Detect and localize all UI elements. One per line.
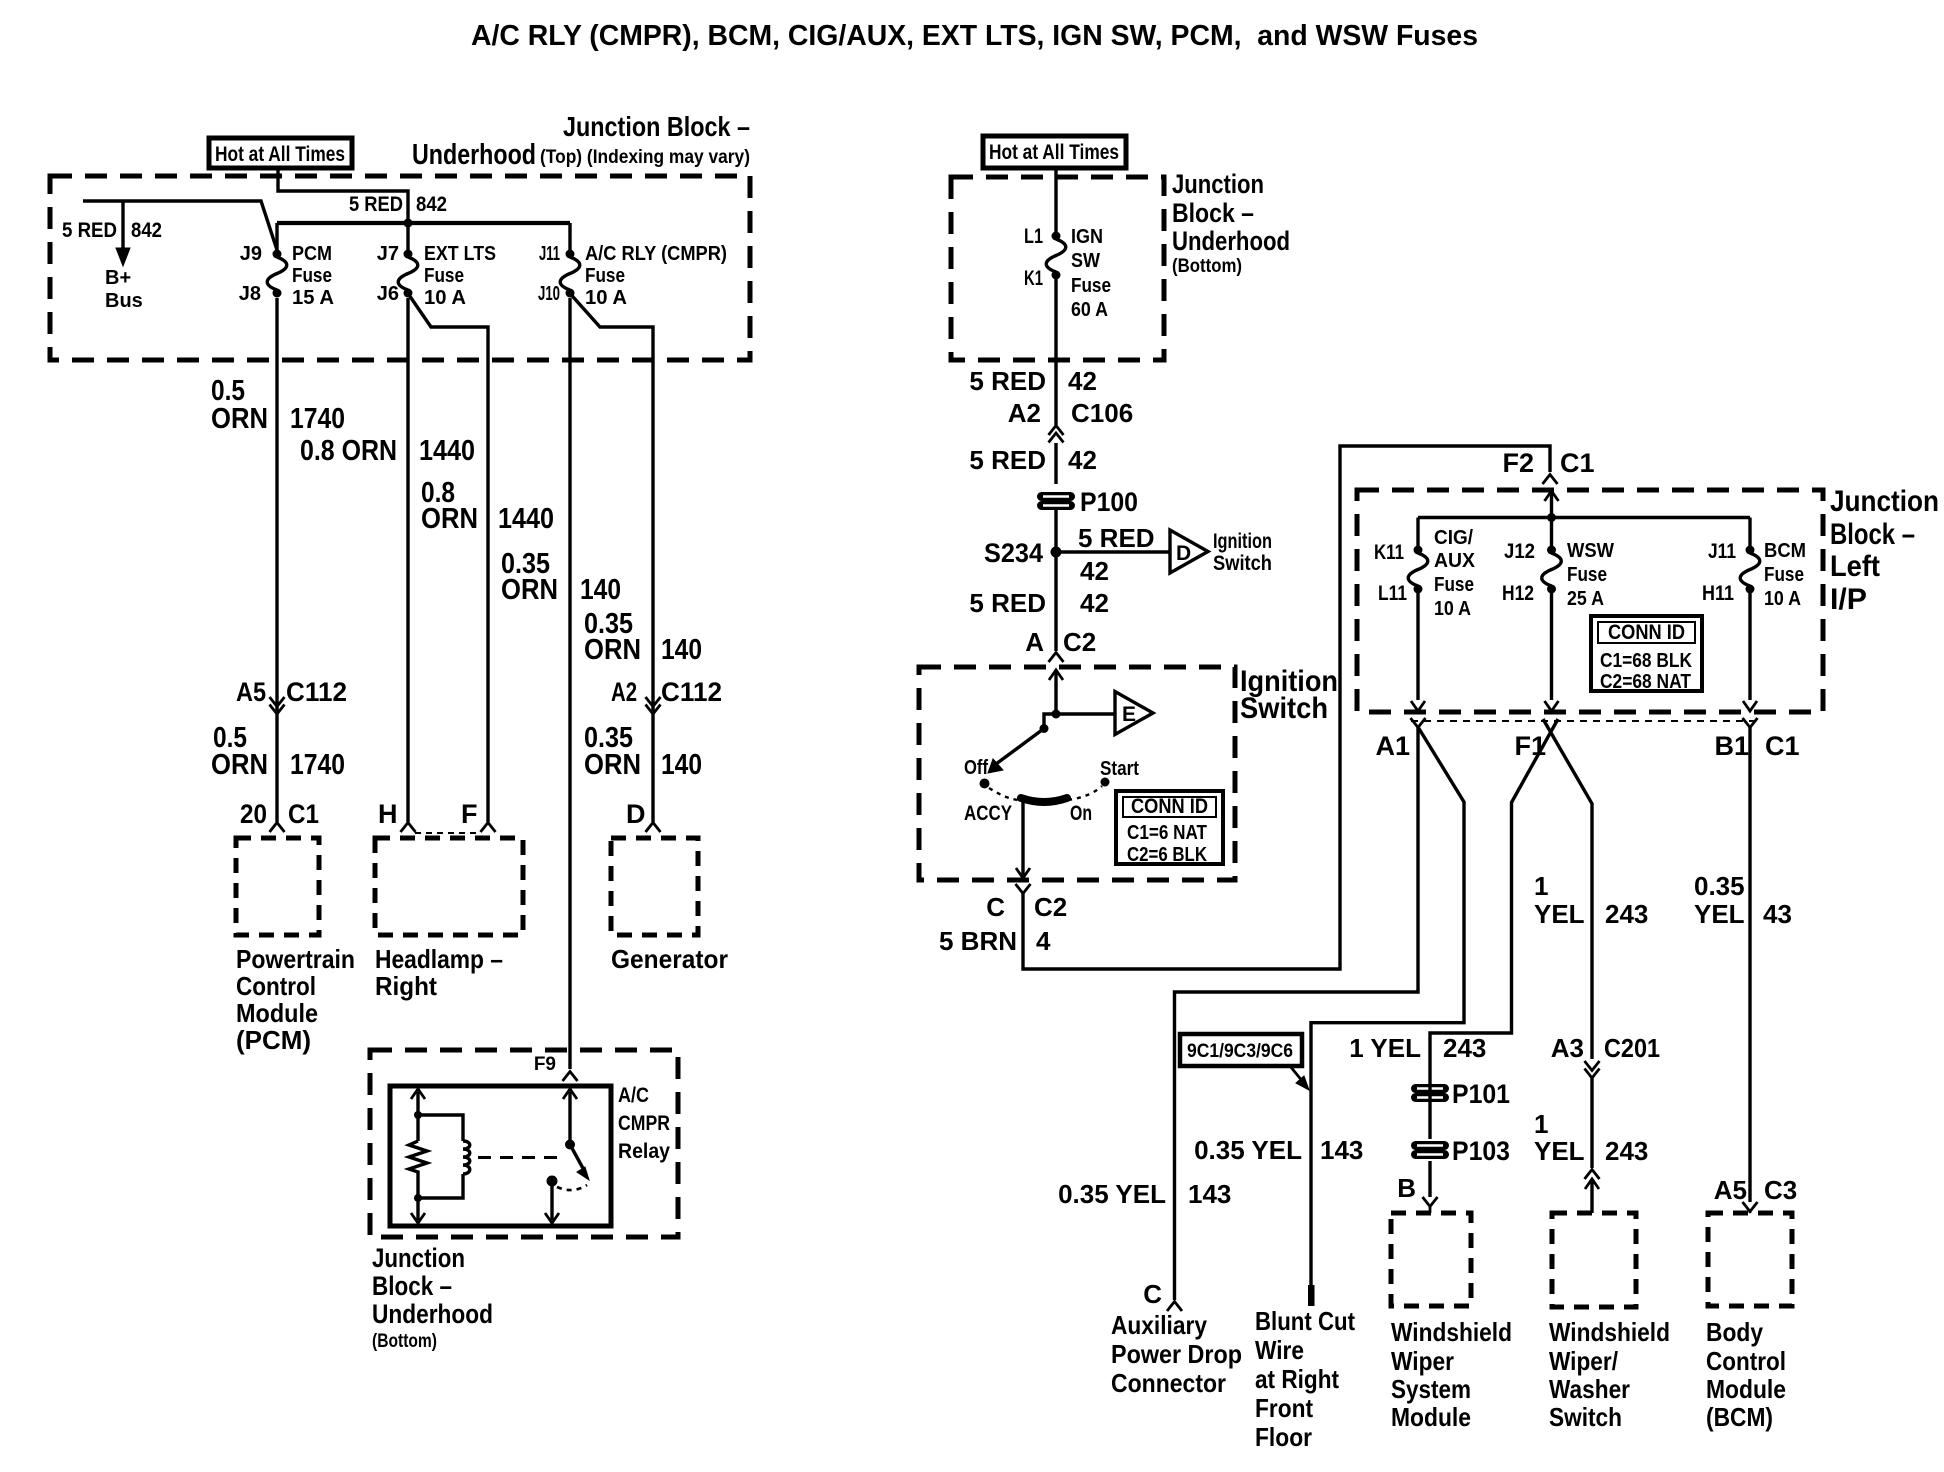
label headlamp right (375, 944, 503, 1001)
label 5 RED 42 a (969, 366, 1097, 396)
svg-text:(PCM): (PCM) (236, 1025, 311, 1055)
svg-text:Blunt Cut: Blunt Cut (1255, 1306, 1355, 1336)
svg-text:10 A: 10 A (585, 287, 627, 309)
label 5 RED 42 branch (1078, 523, 1155, 586)
svg-text:10 A: 10 A (424, 287, 466, 309)
fuse A/C RLY J11-J10 (560, 250, 580, 298)
svg-text:(Bottom): (Bottom) (372, 1331, 437, 1352)
dashed link H-F (415, 832, 481, 834)
svg-text:C2=68 NAT: C2=68 NAT (1600, 671, 1691, 693)
fuse PCM J9-J8 (267, 250, 287, 298)
svg-text:42: 42 (1080, 588, 1109, 618)
svg-text:On: On (1070, 802, 1092, 825)
svg-text:Floor: Floor (1255, 1422, 1312, 1452)
powertrain control module box (236, 838, 319, 935)
label 9C1/9C3/9C6 (1180, 1034, 1309, 1090)
inline connector P100 (1042, 497, 1071, 506)
svg-text:1: 1 (1534, 1109, 1548, 1139)
svg-text:H: H (378, 799, 398, 829)
svg-text:J9: J9 (240, 243, 262, 265)
svg-text:5 RED: 5 RED (62, 219, 117, 242)
connector A2 C106 (1008, 398, 1133, 428)
svg-text:4: 4 (1036, 926, 1051, 956)
relay coil (418, 1115, 470, 1198)
svg-text:A5: A5 (236, 677, 266, 707)
node S at 842 junction (404, 219, 413, 228)
wire P103 to B (1428, 1161, 1431, 1197)
svg-text:9C1/9C3/9C6: 9C1/9C3/9C6 (1187, 1041, 1293, 1062)
svg-text:Power Drop: Power Drop (1111, 1339, 1242, 1369)
svg-text:243: 243 (1605, 1136, 1648, 1166)
wire S234 down to A C2 (1054, 552, 1057, 651)
svg-text:E: E (1122, 703, 1136, 726)
label ignition switch small (1213, 530, 1272, 575)
bus left I/P (1418, 516, 1750, 519)
wire to E triangle (1056, 712, 1115, 715)
svg-text:J12: J12 (1504, 540, 1535, 563)
wire bus 842 (277, 221, 570, 225)
svg-text:Connector: Connector (1111, 1368, 1226, 1398)
svg-text:140: 140 (661, 634, 702, 666)
svg-text:ORN: ORN (211, 403, 268, 435)
connector F2 C1 (1502, 448, 1594, 478)
a/c cmpr relay box (390, 1086, 611, 1226)
svg-text:Ignition: Ignition (1213, 530, 1272, 553)
svg-text:1: 1 (1534, 871, 1548, 901)
label 5 BRN 4 (939, 926, 1051, 956)
connector A2 C112 (611, 677, 722, 707)
wire P100 to S234 (1054, 510, 1057, 552)
svg-text:SW: SW (1071, 250, 1100, 272)
svg-text:Block –: Block – (1830, 518, 1915, 551)
svg-text:Powertrain: Powertrain (236, 944, 355, 974)
svg-text:A: A (1025, 627, 1044, 657)
junction block left I/P header (1830, 485, 1939, 616)
svg-text:1740: 1740 (290, 749, 345, 781)
wire C106 to P100 (1054, 443, 1057, 484)
wire hot box to L1 (1054, 168, 1057, 232)
svg-text:A5: A5 (1714, 1175, 1747, 1205)
wire C C2 down right up to F2 (1023, 446, 1550, 969)
connector A5 C3 (1714, 1175, 1798, 1205)
label 0.5 ORN 1740 (211, 375, 345, 435)
svg-text:Module: Module (1706, 1374, 1786, 1404)
svg-text:C: C (1143, 1279, 1162, 1309)
label auxiliary power drop connector (1111, 1310, 1242, 1398)
svg-text:B: B (1397, 1173, 1416, 1203)
fuse CIG/AUX K11-L11 (1408, 546, 1428, 594)
wire C201 down to washer switch (1590, 1078, 1593, 1168)
svg-text:60 A: 60 A (1071, 299, 1108, 321)
svg-text:C112: C112 (661, 677, 722, 707)
svg-text:Fuse: Fuse (424, 265, 464, 287)
connector A C2 (1025, 627, 1096, 657)
junction block underhood bottom header (1172, 169, 1290, 277)
label 0.8 ORN 1440 b (421, 477, 554, 535)
svg-text:S234: S234 (984, 538, 1043, 568)
svg-text:J7: J7 (377, 243, 399, 265)
svg-text:Module: Module (236, 998, 318, 1028)
svg-text:YEL: YEL (1534, 1136, 1585, 1166)
svg-text:Start: Start (1100, 758, 1139, 780)
svg-text:F: F (461, 799, 478, 829)
svg-text:143: 143 (1320, 1135, 1363, 1165)
wire bus to J11 (568, 223, 571, 250)
svg-text:WSW: WSW (1567, 540, 1614, 562)
svg-text:Left: Left (1830, 550, 1880, 583)
svg-text:43: 43 (1763, 899, 1792, 929)
svg-text:0.8 ORN: 0.8 ORN (300, 435, 397, 467)
junction block underhood bottom dashed box (relay) (370, 1050, 678, 1237)
B+ arrowhead (116, 248, 130, 266)
svg-text:Junction Block –: Junction Block – (563, 111, 750, 142)
svg-text:ACCY: ACCY (964, 802, 1012, 825)
label 1 YEL 243 mid (1534, 871, 1648, 929)
rotor contact ACCY-On (1021, 798, 1067, 802)
svg-text:Windshield: Windshield (1391, 1317, 1512, 1347)
blunt cut end (1308, 1285, 1315, 1306)
label 0.5 ORN 1740 lower (211, 722, 345, 781)
svg-text:10 A: 10 A (1764, 588, 1801, 610)
svg-text:10 A: 10 A (1434, 598, 1471, 620)
switch blade pivot (1044, 714, 1056, 725)
svg-text:Switch: Switch (1213, 552, 1272, 575)
svg-text:Headlamp –: Headlamp – (375, 944, 503, 974)
svg-text:A1: A1 (1375, 731, 1410, 761)
svg-text:K11: K11 (1374, 541, 1404, 564)
label 0.35 YEL 143 left (1058, 1179, 1231, 1209)
svg-text:Front: Front (1255, 1393, 1313, 1423)
wire J6 straight to headlamp H (406, 298, 409, 822)
svg-text:J11: J11 (1708, 540, 1736, 563)
label windshield wiper washer switch (1549, 1317, 1670, 1432)
svg-text:P101: P101 (1452, 1079, 1510, 1109)
label body control module (1706, 1317, 1786, 1432)
wire J10 branch to generator (570, 294, 653, 823)
svg-text:Fuse: Fuse (1764, 564, 1804, 586)
wire A1 diagonal to blunt cut (1311, 727, 1464, 1285)
svg-text:C106: C106 (1071, 398, 1133, 428)
ignition switch dashed box (919, 667, 1235, 880)
svg-text:at Right: at Right (1255, 1364, 1339, 1394)
svg-text:System: System (1391, 1374, 1471, 1404)
svg-text:Wiper: Wiper (1391, 1346, 1454, 1376)
label junction block underhood bottom left (372, 1243, 493, 1352)
svg-text:Switch: Switch (1240, 692, 1328, 725)
svg-text:Auxiliary: Auxiliary (1111, 1310, 1207, 1340)
svg-text:C1: C1 (1560, 448, 1595, 478)
label 0.8 ORN 1440 (300, 435, 475, 467)
svg-text:A2: A2 (1008, 398, 1041, 428)
svg-text:Control: Control (1706, 1346, 1786, 1376)
label 0.35 ORN 140 b (584, 608, 702, 666)
label 5 RED 842 left (62, 219, 162, 242)
label 0.35 YEL 43 (1694, 871, 1792, 929)
svg-text:P100: P100 (1080, 487, 1138, 517)
label 5 RED 42 b (969, 445, 1097, 475)
wire J10 straight to relay F9 (568, 298, 571, 1069)
wire K1 down to C106 (1054, 279, 1057, 425)
hot-at-all-times box right (983, 136, 1126, 168)
junction block underhood top dashed box (50, 176, 750, 360)
fuse IGN SW L1-K1 (1046, 232, 1066, 280)
label A/C CMPR Relay (618, 1084, 670, 1163)
svg-text:F2: F2 (1502, 448, 1534, 478)
body control module box (1708, 1213, 1792, 1306)
svg-text:Body: Body (1706, 1317, 1763, 1347)
wire bus to K11 (1416, 518, 1419, 547)
label 1 YEL 243 lower (1534, 1109, 1648, 1166)
wire B1 down (1748, 727, 1751, 1202)
wire F1 diagonal right to C201 (1543, 719, 1592, 1059)
svg-text:Underhood: Underhood (1172, 226, 1290, 256)
svg-text:K1: K1 (1024, 267, 1043, 290)
svg-text:842: 842 (131, 219, 162, 242)
svg-text:ORN: ORN (211, 749, 268, 781)
relay dashed actuator link (478, 1156, 566, 1159)
svg-text:(Top) (Indexing may vary): (Top) (Indexing may vary) (540, 146, 750, 168)
svg-text:ORN: ORN (501, 574, 558, 606)
wire bus to J11b (1748, 518, 1751, 547)
svg-text:Bus: Bus (105, 290, 143, 312)
svg-text:243: 243 (1443, 1033, 1486, 1063)
wire hot box to bus (278, 168, 408, 219)
svg-text:L11: L11 (1378, 582, 1407, 605)
svg-text:Underhood: Underhood (372, 1299, 493, 1329)
fuse EXT LTS J7-J6 (398, 250, 418, 298)
wire S234 to D triangle (1056, 550, 1170, 553)
junction block underhood top header (412, 111, 750, 171)
terminal Start (1101, 778, 1110, 787)
wire ACCY output (1021, 802, 1024, 876)
svg-text:42: 42 (1068, 366, 1097, 396)
svg-text:J11: J11 (539, 243, 560, 265)
svg-text:PCM: PCM (292, 243, 332, 265)
junction block left I/P dashed box (1357, 490, 1823, 712)
svg-text:5 BRN: 5 BRN (939, 926, 1017, 956)
svg-text:0.35 YEL: 0.35 YEL (1194, 1135, 1302, 1165)
svg-text:Washer: Washer (1549, 1374, 1630, 1404)
svg-text:AUX: AUX (1434, 550, 1476, 572)
wire bus to J9 (275, 223, 278, 250)
svg-text:15 A: 15 A (292, 287, 334, 309)
label 0.35 ORN 140 (501, 548, 621, 606)
svg-text:(Bottom): (Bottom) (1172, 256, 1242, 277)
svg-text:Fuse: Fuse (1071, 275, 1111, 297)
svg-text:Fuse: Fuse (1567, 564, 1607, 586)
svg-text:Generator: Generator (611, 944, 728, 974)
svg-text:J8: J8 (239, 283, 261, 305)
svg-text:A2: A2 (611, 677, 637, 707)
svg-text:5 RED: 5 RED (969, 445, 1046, 475)
label B+ Bus (105, 267, 143, 312)
svg-text:CONN ID: CONN ID (1608, 621, 1685, 644)
svg-text:BCM: BCM (1764, 540, 1806, 562)
node bus F2 (1547, 513, 1556, 522)
svg-text:YEL: YEL (1694, 899, 1745, 929)
label 0.35 YEL 143 right (1194, 1135, 1363, 1165)
generator box (611, 838, 698, 935)
svg-text:C: C (986, 892, 1005, 922)
wire H12 down (1545, 593, 1559, 711)
svg-text:D: D (626, 799, 646, 829)
svg-text:Wiper/: Wiper/ (1549, 1346, 1618, 1376)
svg-text:Fuse: Fuse (1434, 574, 1474, 596)
svg-text:A/C: A/C (618, 1084, 649, 1107)
ignition switch header (1240, 665, 1338, 725)
svg-text:42: 42 (1080, 556, 1109, 586)
svg-text:D: D (1176, 542, 1191, 565)
svg-text:J10: J10 (538, 283, 560, 305)
conn id box left I/P (1591, 616, 1702, 693)
svg-text:0.35 YEL: 0.35 YEL (1058, 1179, 1166, 1209)
svg-text:Block –: Block – (372, 1271, 452, 1301)
rotary dashed arc (989, 786, 1102, 800)
svg-text:A/C RLY (CMPR), BCM, CIG/AUX,: A/C RLY (CMPR), BCM, CIG/AUX, EXT LTS, I… (471, 20, 1478, 52)
junction block underhood bottom dashed box (951, 177, 1164, 360)
svg-text:Relay: Relay (618, 1140, 670, 1163)
svg-text:1740: 1740 (290, 403, 345, 435)
wire L11 down (1411, 593, 1425, 711)
wire P101 to P103 (1428, 1082, 1431, 1139)
svg-text:ORN: ORN (584, 749, 641, 781)
svg-text:J6: J6 (377, 283, 399, 305)
switch blade to Off (996, 729, 1044, 765)
svg-text:IGN: IGN (1071, 226, 1103, 248)
svg-text:1440: 1440 (498, 503, 554, 535)
relay coil line (409, 1089, 427, 1223)
svg-text:1 YEL: 1 YEL (1349, 1033, 1421, 1063)
svg-text:C1: C1 (1765, 731, 1800, 761)
wire B+ branch (83, 201, 277, 250)
svg-text:B+: B+ (105, 267, 131, 289)
wire feed into switch (1049, 670, 1063, 714)
svg-text:CONN ID: CONN ID (1131, 795, 1208, 818)
headlamp right box (375, 838, 523, 935)
svg-text:25 A: 25 A (1567, 588, 1604, 610)
svg-text:1440: 1440 (419, 435, 475, 467)
svg-text:Hot at All Times: Hot at All Times (989, 141, 1119, 164)
label 5 RED 842 top (349, 193, 447, 216)
svg-text:A3: A3 (1551, 1033, 1584, 1063)
windshield wiper washer switch box (1552, 1213, 1636, 1307)
label blunt cut wire (1255, 1306, 1355, 1452)
svg-text:Hot at All Times: Hot at All Times (215, 143, 345, 166)
svg-text:Windshield: Windshield (1549, 1317, 1670, 1347)
pin B1 C1 (1714, 731, 1799, 761)
connector A5 C112 (236, 677, 347, 707)
svg-text:140: 140 (661, 749, 702, 781)
wire J6 branch to headlamp F (408, 294, 488, 823)
svg-text:Wire: Wire (1255, 1335, 1304, 1365)
relay switch (545, 1089, 589, 1223)
inline connector P101 (1416, 1089, 1445, 1098)
svg-text:C2=6 BLK: C2=6 BLK (1127, 844, 1207, 866)
pin 20 C1 pcm (240, 799, 319, 829)
svg-text:C3: C3 (1764, 1175, 1797, 1205)
svg-text:Fuse: Fuse (292, 265, 332, 287)
svg-text:Block –: Block – (1172, 198, 1254, 228)
node switch common (1052, 710, 1061, 719)
svg-text:C201: C201 (1604, 1033, 1660, 1063)
wire bus to J7 (406, 223, 409, 250)
label 1 YEL 243 left (1349, 1033, 1486, 1063)
svg-text:YEL: YEL (1534, 899, 1585, 929)
label powertrain control module (236, 944, 355, 1055)
svg-text:CMPR: CMPR (618, 1112, 670, 1135)
wire bus to J12 (1550, 518, 1553, 547)
svg-text:L1: L1 (1024, 225, 1043, 248)
svg-text:Junction: Junction (1830, 485, 1939, 518)
svg-text:Right: Right (375, 971, 437, 1001)
svg-text:ORN: ORN (584, 634, 641, 666)
svg-text:5 RED: 5 RED (969, 588, 1046, 618)
svg-text:P103: P103 (1452, 1136, 1510, 1166)
svg-text:H11: H11 (1702, 582, 1734, 605)
svg-text:C1=6 NAT: C1=6 NAT (1127, 822, 1207, 844)
svg-text:Off: Off (964, 757, 988, 779)
svg-text:140: 140 (580, 574, 621, 606)
svg-text:5 RED: 5 RED (969, 366, 1046, 396)
svg-text:243: 243 (1605, 899, 1648, 929)
svg-text:EXT LTS: EXT LTS (424, 243, 496, 265)
svg-text:F9: F9 (534, 1054, 556, 1075)
svg-text:143: 143 (1188, 1179, 1231, 1209)
conn id box ignition (1116, 791, 1223, 866)
connector C C2 (1016, 884, 1031, 894)
svg-text:Junction: Junction (372, 1243, 465, 1273)
svg-text:C1: C1 (288, 799, 319, 829)
svg-text:C112: C112 (286, 677, 347, 707)
wire H11 down (1743, 593, 1757, 711)
svg-text:42: 42 (1068, 445, 1097, 475)
svg-text:Module: Module (1391, 1402, 1471, 1432)
svg-text:C2: C2 (1034, 892, 1067, 922)
label 5 RED 42 c (969, 588, 1109, 618)
svg-text:A/C RLY (CMPR): A/C RLY (CMPR) (585, 243, 727, 265)
off-page triangle D (1170, 530, 1208, 573)
svg-text:Control: Control (236, 971, 316, 1001)
windshield wiper system module box (1391, 1213, 1471, 1306)
svg-text:B1: B1 (1714, 731, 1749, 761)
inline connector P103 (1416, 1146, 1445, 1155)
label windshield wiper system module (1391, 1317, 1512, 1432)
svg-text:0.35: 0.35 (1694, 871, 1745, 901)
connector A3 C201 (1551, 1033, 1660, 1063)
label 0.35 ORN 140 lower (584, 722, 702, 781)
svg-text:Switch: Switch (1549, 1402, 1622, 1432)
svg-text:5 RED: 5 RED (1078, 523, 1155, 553)
wire J8 to PCM connector (275, 298, 278, 822)
svg-text:ORN: ORN (421, 503, 478, 535)
svg-text:C1=68 BLK: C1=68 BLK (1600, 650, 1692, 672)
splice S234 (1051, 547, 1062, 558)
fuse WSW J12-H12 (1542, 546, 1562, 594)
svg-text:842: 842 (416, 193, 447, 216)
svg-text:CIG/: CIG/ (1434, 527, 1473, 549)
off-page triangle E (1115, 692, 1153, 735)
svg-text:I/P: I/P (1830, 583, 1867, 616)
svg-text:5 RED: 5 RED (349, 193, 403, 216)
wire A1 straight to aux power (1175, 727, 1419, 1300)
wire F1 diagonal left to P101 (1430, 719, 1558, 1082)
svg-text:20: 20 (240, 799, 267, 829)
hot-at-all-times box left (209, 138, 352, 168)
svg-text:(BCM): (BCM) (1706, 1402, 1773, 1432)
fine dashed connector line (1411, 720, 1757, 722)
svg-text:H12: H12 (1502, 582, 1534, 605)
svg-text:Underhood: Underhood (412, 139, 536, 171)
